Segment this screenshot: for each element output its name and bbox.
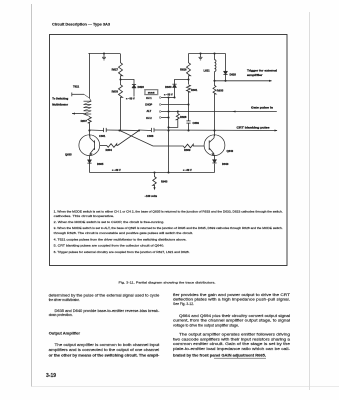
svg-text:4. T621 couples pulses from th: 4. T621 couples pulses from the driver m… — [54, 238, 187, 242]
wire D633 cathode to CH1 row — [174, 88, 176, 98]
svg-text:5. CRT blanking pulses are cou: 5. CRT blanking pulses are coupled from … — [54, 244, 165, 248]
capacitor C636 — [150, 128, 152, 132]
svg-text:voltage to drive the output am: voltage to drive the output amplifier st… — [173, 323, 239, 327]
svg-text:or the other by means of the s: or the other by means of the switching c… — [49, 354, 160, 358]
wire R633 down to main line — [120, 98, 122, 131]
wire R634 to Q635 base — [100, 145, 106, 147]
wire cross-coupling leg A — [120, 131, 183, 147]
wire primary bottom lead — [72, 113, 84, 115]
ground symbol left — [103, 54, 105, 58]
svg-text:fier provides the gain and pow: fier provides the gain and power output … — [173, 293, 291, 297]
transformer T621 winding — [84, 100, 92, 102]
svg-text:Gate pulse in: Gate pulse in — [251, 105, 273, 109]
svg-text:≈ −30 V: ≈ −30 V — [183, 169, 192, 172]
wire D628 top lead — [225, 54, 227, 72]
transistor Q635 — [79, 135, 100, 156]
figure border box — [50, 35, 288, 266]
svg-text:common emitter circuit. Gain o: common emitter circuit. Gain of the stag… — [173, 342, 290, 346]
svg-text:R635: R635 — [217, 89, 224, 93]
wire CH1 row — [161, 97, 174, 99]
gate input arrowhead — [233, 110, 236, 112]
wire CHOP row to R631 rail — [161, 104, 188, 106]
svg-text:3-19: 3-19 — [46, 373, 56, 379]
resistor R628 — [177, 112, 179, 114]
svg-text:C639: C639 — [193, 121, 200, 125]
svg-text:two cascode amplifiers with th: two cascode amplifiers with their input … — [173, 337, 290, 341]
svg-text:CH 2: CH 2 — [146, 117, 152, 120]
svg-text:CH 1: CH 1 — [146, 97, 152, 100]
svg-text:R631: R631 — [191, 88, 198, 92]
wire R637 to Q635 collector — [89, 123, 91, 136]
resistor R643 — [154, 173, 156, 177]
wire R626 to R631 — [188, 77, 190, 85]
svg-text:C631: C631 — [99, 134, 106, 138]
wire main line mid-left — [106, 129, 139, 132]
wire D635 to emitter bus — [89, 163, 91, 172]
svg-text:See Fig. 3-12.: See Fig. 3-12. — [173, 302, 194, 306]
svg-text:down protection.: down protection. — [49, 313, 73, 317]
svg-text:Q664 and Q694 plus their circu: Q664 and Q694 plus their circuitry conve… — [179, 314, 290, 318]
wire L621 bottom — [214, 72, 216, 81]
svg-text:CRT blanking pulse: CRT blanking pulse — [237, 126, 271, 130]
svg-text:D640: D640 — [222, 162, 229, 166]
scan edge bottom — [32, 386, 339, 388]
wire D628 bottom lead — [225, 75, 227, 81]
svg-text:R633: R633 — [112, 90, 119, 94]
diode D640 — [214, 155, 216, 160]
svg-text:brated by the front panel GAIN: brated by the front panel GAIN adjustmen… — [173, 353, 266, 357]
svg-text:−100 volts: −100 volts — [145, 194, 158, 198]
wire R639 to Q640 base — [194, 145, 204, 147]
svg-text:R627: R627 — [112, 68, 119, 72]
svg-text:R639: R639 — [184, 148, 191, 152]
svg-text:The output amplifier is common: The output amplifier is common to both c… — [55, 343, 160, 347]
svg-text:Trigger for external: Trigger for external — [247, 69, 277, 73]
svg-text:L621: L621 — [204, 69, 211, 73]
svg-text:the driver multivibrator.: the driver multivibrator. — [49, 298, 80, 302]
svg-text:≈ −30 V: ≈ −30 V — [164, 93, 173, 96]
resistor R637 — [88, 116, 92, 123]
svg-text:C636: C636 — [147, 134, 154, 138]
wire branch to D633 — [175, 80, 189, 85]
wire R643 bottom with arrow — [154, 186, 156, 189]
svg-text:Output Amplifier: Output Amplifier — [49, 331, 81, 336]
resistor R627 — [119, 62, 123, 77]
svg-text:Q640: Q640 — [227, 149, 234, 153]
svg-text:D635: D635 — [97, 162, 104, 166]
ground symbol right — [200, 54, 202, 58]
svg-text:1. When the MODE switch is set: 1. When the MODE switch is set to either… — [54, 209, 283, 213]
CRT blanking pulse output arrow — [275, 129, 278, 131]
wire ALT row and gate input line — [161, 111, 277, 113]
wire D640 to emitter bus — [214, 164, 216, 173]
svg-text:The output amplifier operates: The output amplifier operates emitter fo… — [179, 333, 290, 337]
wire main line right portion — [154, 129, 277, 132]
wire CH2 row — [161, 117, 168, 119]
wire branch to D623 — [121, 80, 135, 85]
svg-text:D628: D628 — [230, 73, 237, 77]
resistor R626 — [187, 62, 191, 77]
scan edge left — [31, 4, 33, 387]
wire R631 down to C639 — [188, 93, 190, 121]
svg-text:6. Trigger pulses for external: 6. Trigger pulses for external circuitry… — [54, 250, 190, 254]
svg-text:Fig. 3-11. Partial diagram sho: Fig. 3-11. Partial diagram showing the t… — [119, 281, 216, 285]
svg-text:through R628. The circuit is m: through R628. The circuit is monostable … — [54, 231, 193, 235]
svg-text:D623: D623 — [138, 85, 145, 89]
wire top-right bus — [189, 53, 226, 55]
capacitor C631 — [103, 128, 105, 132]
resistor R639 — [183, 144, 195, 148]
resistor R631 — [187, 85, 191, 93]
wire main collector line left — [90, 129, 104, 132]
svg-text:D633: D633 — [165, 85, 172, 89]
svg-text:Q635: Q635 — [65, 153, 72, 157]
wire R628 bottom to rail — [169, 120, 178, 127]
svg-text:plate-to-emitter load impedanc: plate-to-emitter load impedance ratio wh… — [173, 347, 291, 351]
resistor R633 — [119, 84, 123, 98]
wire cross-coupling leg B — [118, 131, 140, 146]
svg-text:Multivibrator: Multivibrator — [52, 102, 68, 106]
svg-text:T621: T621 — [73, 84, 80, 88]
diode D623 — [132, 85, 136, 88]
svg-text:≈ −30 V: ≈ −30 V — [126, 98, 135, 101]
svg-text:R628: R628 — [180, 115, 187, 119]
svg-text:≈ −30 V: ≈ −30 V — [112, 169, 121, 172]
wire R627 to R633 — [120, 77, 122, 85]
svg-text:deflection plates with a high: deflection plates with a high impedance … — [173, 297, 290, 301]
svg-text:R634: R634 — [106, 148, 113, 152]
inductor L621 — [214, 54, 216, 60]
wire switch rail — [168, 98, 170, 173]
wire main line to C636 — [139, 129, 151, 132]
svg-text:MODE: MODE — [148, 93, 155, 95]
scan edge right — [309, 12, 311, 390]
svg-text:amplifier: amplifier — [247, 73, 263, 77]
svg-text:To Switching: To Switching — [52, 96, 68, 100]
svg-text:2. When the MODE switch is set: 2. When the MODE switch is set to CHOP, … — [54, 220, 165, 224]
wire left rail upper — [120, 54, 122, 63]
wire top-left bus — [89, 53, 121, 55]
svg-text:current, from the channel ampl: current, from the channel amplifier outp… — [173, 319, 290, 323]
transistor Q640 — [204, 135, 225, 156]
diode D635 — [89, 156, 91, 160]
wire R635 down to Q640 collector node — [214, 95, 216, 131]
svg-text:determined by the pulse of the: determined by the pulse of the external … — [49, 294, 160, 298]
resistor R634 — [106, 144, 118, 148]
wire Q640 collector riser — [214, 130, 216, 136]
resistor R635 — [214, 81, 216, 85]
diode D628 — [223, 71, 227, 74]
wire primary top lead — [72, 93, 84, 95]
wire emitter bus — [90, 172, 215, 174]
capacitor C639 — [186, 120, 190, 122]
wire C639 to main line — [188, 123, 190, 130]
svg-text:cathodes. This circuit inopera: cathodes. This circuit inoperative. — [54, 214, 115, 218]
diode D633 — [172, 84, 176, 87]
svg-text:R643: R643 — [161, 180, 168, 184]
svg-text:Circuit Description — Type 3A3: Circuit Description — Type 3A3 — [52, 21, 111, 26]
wire trigger output — [215, 80, 272, 82]
svg-text:3. When the MODE switch is set: 3. When the MODE switch is set to ALT, t… — [54, 226, 283, 230]
switch MODE label box — [145, 89, 159, 95]
wire transformer top riser — [89, 54, 91, 99]
svg-text:R637: R637 — [81, 119, 88, 123]
svg-text:amplifiers and is connected to: amplifiers and is connected to the outpu… — [49, 348, 160, 352]
svg-text:CHOP: CHOP — [145, 104, 153, 107]
svg-text:ALT: ALT — [147, 110, 152, 113]
wire D623 cathode lead — [133, 88, 135, 97]
svg-text:R626: R626 — [180, 68, 187, 72]
